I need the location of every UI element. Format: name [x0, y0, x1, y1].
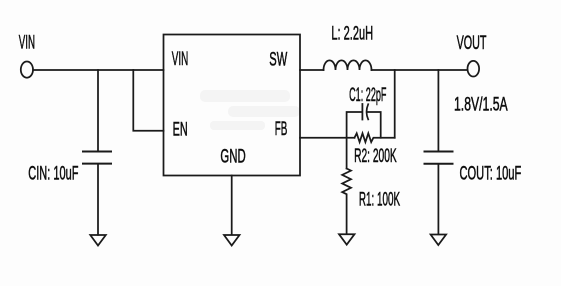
svg-text:FB: FB	[275, 119, 288, 140]
svg-text:VOUT: VOUT	[457, 33, 487, 54]
svg-text:L: 2.2uH: L: 2.2uH	[331, 24, 373, 45]
svg-text:VIN: VIN	[19, 32, 35, 53]
svg-text:C1: 22pF: C1: 22pF	[349, 84, 386, 106]
svg-text:CIN: 10uF: CIN: 10uF	[28, 164, 78, 185]
svg-text:R1: 100K: R1: 100K	[359, 189, 400, 210]
svg-text:COUT: 10uF: COUT: 10uF	[460, 164, 522, 185]
svg-text:R2: 200K: R2: 200K	[354, 146, 397, 167]
svg-text:VIN: VIN	[172, 49, 188, 70]
svg-text:EN: EN	[173, 120, 188, 141]
svg-text:GND: GND	[220, 147, 245, 168]
svg-text:1.8V/1.5A: 1.8V/1.5A	[454, 94, 508, 115]
svg-text:SW: SW	[269, 50, 287, 71]
